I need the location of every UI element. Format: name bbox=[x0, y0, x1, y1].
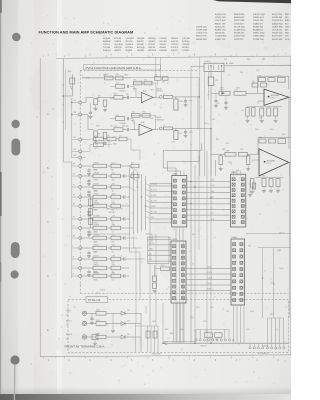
svg-text:L CH IN: L CH IN bbox=[151, 184, 157, 186]
inductor L2 bbox=[163, 127, 172, 130]
CN604 pin 10 bbox=[233, 299, 236, 302]
resistor R99 bbox=[225, 152, 236, 156]
svg-text:KKC426: KKC426 bbox=[160, 41, 167, 43]
svg-text:PVC4 FUNCTION AND MAIN AMP C.: PVC4 FUNCTION AND MAIN AMP C.B.A. bbox=[86, 66, 142, 70]
bus CN604 bottom drops bbox=[233, 305, 235, 343]
svg-text:2DRK1: 2DRK1 bbox=[270, 98, 275, 100]
svg-text:12Q60751: 12Q60751 bbox=[200, 345, 207, 347]
svg-text:D4R: D4R bbox=[112, 262, 115, 264]
svg-text:L: L bbox=[73, 245, 74, 247]
svg-text:137D: 137D bbox=[240, 149, 243, 151]
svg-text:9Q0: 9Q0 bbox=[162, 82, 165, 84]
pin J R-out bbox=[159, 127, 162, 130]
svg-text:K878: K878 bbox=[112, 202, 116, 204]
svg-text:R6D47 539: R6D47 539 bbox=[215, 23, 226, 25]
svg-text:2R29: 2R29 bbox=[96, 320, 100, 322]
capacitor C95 bbox=[215, 93, 217, 100]
svg-text:DET: DET bbox=[151, 217, 154, 219]
svg-text:9K1: 9K1 bbox=[131, 162, 134, 164]
connector pin P2 bbox=[79, 113, 82, 116]
svg-text:530QRK: 530QRK bbox=[137, 38, 145, 40]
wire row 5 out bbox=[121, 218, 124, 220]
capacitor C90 supply bbox=[210, 66, 212, 77]
svg-text:L1: L1 bbox=[164, 94, 166, 96]
svg-text:D312: D312 bbox=[256, 70, 260, 72]
svg-text:1CK4R: 1CK4R bbox=[207, 278, 213, 280]
wire row 3 out bbox=[121, 196, 124, 198]
net label REC L bbox=[148, 239, 171, 241]
svg-text:08K5: 08K5 bbox=[112, 183, 116, 185]
resistor R132 bbox=[96, 335, 106, 339]
svg-text:B+ 13.8: B+ 13.8 bbox=[151, 201, 157, 203]
svg-text:1RQ35 266: 1RQ35 266 bbox=[253, 20, 264, 22]
svg-text:0Q13Q 5C6: 0Q13Q 5C6 bbox=[215, 14, 227, 16]
svg-text:FUNCTION AND MAIN AMP SCHEMATI: FUNCTION AND MAIN AMP SCHEMATIC DIAGRAM bbox=[39, 30, 134, 35]
svg-text:C78K: C78K bbox=[172, 142, 176, 144]
svg-text:64694 C0C: 64694 C0C bbox=[234, 17, 245, 19]
svg-text:C3KK: C3KK bbox=[152, 321, 156, 323]
svg-text:13QRC7: 13QRC7 bbox=[204, 61, 210, 63]
svg-text:RQ34: RQ34 bbox=[280, 268, 284, 270]
wires CN603 to CN604 bbox=[186, 268, 231, 270]
wire left col connect bbox=[63, 161, 72, 163]
svg-text:CK9: CK9 bbox=[73, 155, 76, 157]
svg-text:1225: 1225 bbox=[235, 90, 239, 92]
svg-text:84Q186: 84Q186 bbox=[94, 183, 100, 185]
svg-text:2D21: 2D21 bbox=[224, 59, 228, 61]
bottom terminal group 3 bbox=[267, 343, 269, 346]
wire power drop bbox=[63, 90, 72, 96]
row 2 third box bbox=[131, 174, 139, 178]
svg-text:987C58: 987C58 bbox=[126, 41, 133, 43]
svg-text:19R677: 19R677 bbox=[94, 264, 99, 266]
svg-text:9Q8772: 9Q8772 bbox=[171, 50, 178, 52]
CN601 pin 6 bbox=[173, 209, 176, 212]
relay RY2 bbox=[174, 131, 178, 140]
resistor R93 bbox=[219, 91, 230, 95]
capacitor C131 shunt bbox=[92, 335, 98, 340]
page crease bottom-left bbox=[13, 365, 15, 400]
svg-text:203: 203 bbox=[127, 320, 130, 322]
wire junction bbox=[129, 165, 130, 166]
diagonal merge wires rows 1-3 bbox=[129, 166, 138, 172]
inductor L1 bbox=[163, 96, 172, 99]
capacitor C36 bbox=[107, 227, 112, 229]
divider chain boxes bbox=[90, 196, 92, 228]
svg-text:62Q7: 62Q7 bbox=[226, 143, 230, 145]
svg-text:D54DK4: D54DK4 bbox=[156, 88, 162, 90]
svg-text:uPC1230H2: uPC1230H2 bbox=[270, 95, 279, 97]
connector pin J12 bbox=[79, 267, 82, 270]
svg-text:QD6: QD6 bbox=[112, 179, 115, 181]
top bias row bbox=[105, 76, 114, 80]
CN601 pin 4 bbox=[173, 197, 176, 200]
svg-text:uPC1230H2: uPC1230H2 bbox=[266, 161, 275, 163]
svg-text:1887: 1887 bbox=[222, 149, 225, 151]
upper chain bbox=[110, 85, 116, 87]
svg-text:408Q5 RD5: 408Q5 RD5 bbox=[272, 23, 284, 25]
svg-text:Q5K5: Q5K5 bbox=[114, 94, 118, 96]
CN603 pin 9 bbox=[173, 291, 176, 294]
power amp IC U2 bbox=[264, 89, 289, 105]
svg-text:S GND: S GND bbox=[151, 195, 157, 197]
resistor R37 bbox=[82, 237, 93, 239]
svg-text:17670 418: 17670 418 bbox=[234, 23, 244, 25]
svg-text:V: V bbox=[73, 265, 74, 267]
svg-text:KQD1: KQD1 bbox=[122, 126, 126, 128]
svg-text:7297C0: 7297C0 bbox=[103, 44, 110, 46]
CN604 pin 9 bbox=[233, 292, 236, 295]
capacitor C93 lower bbox=[267, 108, 271, 116]
svg-text:C41: C41 bbox=[217, 103, 220, 105]
connector pin J3 bbox=[79, 175, 82, 178]
svg-text:PT04-1/2: PT04-1/2 bbox=[88, 298, 101, 302]
svg-text:53KK: 53KK bbox=[116, 115, 119, 117]
svg-text:2C7D3C: 2C7D3C bbox=[171, 44, 179, 46]
capacitor C41 bbox=[107, 275, 112, 277]
wire amp R input bbox=[211, 153, 226, 155]
svg-text:565D81: 565D81 bbox=[160, 44, 167, 46]
svg-text:7DCRRQ: 7DCRRQ bbox=[94, 215, 101, 217]
svg-text:K60R4K: K60R4K bbox=[103, 41, 111, 43]
power amp U3 feedback wire bbox=[258, 138, 289, 155]
svg-text:5716: 5716 bbox=[215, 80, 219, 82]
svg-text:3743: 3743 bbox=[210, 307, 213, 309]
svg-text:6R99QQ: 6R99QQ bbox=[148, 38, 156, 40]
svg-text:41R4: 41R4 bbox=[112, 224, 116, 226]
svg-text:972C98: 972C98 bbox=[114, 38, 121, 40]
diode D131 bbox=[106, 323, 121, 325]
svg-text:Q701: Q701 bbox=[86, 78, 90, 80]
svg-text:TU: TU bbox=[73, 184, 75, 186]
U1a output wire bbox=[153, 96, 159, 98]
svg-text:1D9: 1D9 bbox=[112, 209, 115, 211]
svg-text:5323D2: 5323D2 bbox=[182, 47, 189, 49]
svg-text:8R3: 8R3 bbox=[73, 112, 76, 114]
connector pin P4 bbox=[79, 150, 82, 153]
svg-text:352D: 352D bbox=[95, 137, 98, 139]
svg-text:63Q71 262: 63Q71 262 bbox=[272, 14, 283, 16]
svg-text:44D9: 44D9 bbox=[270, 314, 274, 316]
capacitor C51 shunt bbox=[88, 178, 90, 180]
binder hole 5 bbox=[11, 270, 19, 278]
svg-text:R06CD 776: R06CD 776 bbox=[196, 36, 207, 38]
svg-text:0647K2: 0647K2 bbox=[114, 50, 121, 52]
ground U2 bias bbox=[247, 116, 249, 120]
resistor R92 feedback bbox=[268, 78, 275, 82]
svg-text:CQ85: CQ85 bbox=[205, 331, 209, 333]
capacitor C12 gnd bbox=[135, 89, 137, 92]
wire to U2 bbox=[246, 92, 264, 94]
bottom scan shadow bbox=[0, 0, 1, 1]
svg-text:73KK: 73KK bbox=[150, 90, 153, 92]
wire junction bbox=[133, 175, 134, 176]
svg-text:C545R9: C545R9 bbox=[160, 38, 167, 40]
svg-text:2Q805 677: 2Q805 677 bbox=[253, 23, 264, 25]
wire jack VIDEO bbox=[87, 312, 96, 314]
svg-text:3910: 3910 bbox=[122, 97, 125, 99]
wire junction bbox=[141, 196, 142, 197]
mute circuit risers bbox=[155, 58, 157, 77]
frame grid numbers top bbox=[48, 54, 280, 56]
CN601 pin 3 bbox=[173, 191, 176, 194]
resistor R30 bbox=[82, 165, 93, 167]
wire row 2 out bbox=[121, 186, 130, 188]
input arrow bbox=[222, 92, 226, 95]
svg-text:0K35: 0K35 bbox=[179, 133, 183, 135]
svg-text:00DC: 00DC bbox=[192, 234, 196, 236]
svg-text:K8K: K8K bbox=[248, 246, 251, 248]
svg-text:VOL: VOL bbox=[149, 254, 152, 256]
wire supply branch bbox=[221, 66, 223, 92]
connector pin J4 bbox=[79, 186, 82, 189]
svg-text:5QQ4: 5QQ4 bbox=[236, 88, 240, 90]
CN602 pin 9 bbox=[232, 221, 235, 224]
net label MUTE bbox=[151, 207, 174, 209]
signal label box 1 bbox=[150, 183, 172, 223]
svg-text:544: 544 bbox=[73, 100, 76, 102]
svg-text:464R: 464R bbox=[180, 329, 183, 331]
CN601 pin 1 bbox=[173, 179, 176, 182]
svg-text:030: 030 bbox=[252, 81, 255, 83]
svg-text:9Q89D C61: 9Q89D C61 bbox=[215, 30, 227, 32]
wires CN601 to CN602 bbox=[187, 181, 231, 183]
capacitor C53 shunt bbox=[88, 209, 90, 211]
svg-text:2C82R2: 2C82R2 bbox=[182, 50, 189, 52]
junction dots bbox=[190, 181, 192, 183]
svg-text:8RR: 8RR bbox=[285, 20, 290, 22]
connector CN601 bbox=[172, 176, 187, 228]
svg-text:RQR3: RQR3 bbox=[250, 311, 254, 313]
CN603 pin 4 bbox=[173, 262, 176, 265]
svg-text:57389: 57389 bbox=[94, 200, 98, 202]
wire shelf route A bbox=[163, 144, 202, 176]
resistor R32 bbox=[82, 186, 93, 188]
CN601 pin 2 bbox=[173, 185, 176, 188]
connector pin J6 bbox=[79, 205, 82, 208]
svg-text:7D2C5 8C6: 7D2C5 8C6 bbox=[215, 20, 226, 22]
svg-text:3385: 3385 bbox=[240, 72, 243, 74]
svg-text:7C8D7418: 7C8D7418 bbox=[108, 212, 115, 214]
svg-text:499CK5: 499CK5 bbox=[148, 47, 155, 49]
svg-text:P CONT: P CONT bbox=[151, 212, 157, 214]
capacitor C110 chain bbox=[154, 265, 156, 276]
resistor R101 vertical bbox=[219, 156, 222, 165]
svg-text:C26RK 5DR: C26RK 5DR bbox=[196, 30, 208, 32]
resistor R31 bbox=[82, 175, 93, 177]
svg-text:2Q37R C05: 2Q37R C05 bbox=[196, 26, 208, 28]
svg-text:59RR9: 59RR9 bbox=[94, 179, 98, 181]
svg-text:R803: R803 bbox=[262, 59, 266, 61]
svg-text:4CC04 444: 4CC04 444 bbox=[272, 17, 283, 19]
svg-text:145: 145 bbox=[119, 135, 122, 137]
wire top join horizontal bbox=[82, 77, 199, 79]
svg-text:5C75: 5C75 bbox=[112, 234, 116, 236]
connector pin J9 bbox=[79, 237, 82, 240]
CN602 pin 2 bbox=[232, 183, 235, 186]
wire junction bbox=[129, 227, 134, 229]
connector CN602 bbox=[231, 174, 246, 227]
svg-text:455945: 455945 bbox=[160, 47, 166, 49]
resistor R21 vertical pair bbox=[94, 131, 98, 137]
svg-text:2C1R: 2C1R bbox=[116, 83, 120, 85]
resistor R130 bbox=[96, 312, 106, 316]
upper chain b bbox=[110, 118, 116, 120]
svg-text:0717: 0717 bbox=[110, 126, 113, 128]
wire main left bus bbox=[62, 59, 64, 162]
binder slot 4 bbox=[11, 242, 20, 258]
svg-text:36R3R1: 36R3R1 bbox=[94, 162, 100, 164]
CN603 pin 10 bbox=[173, 297, 176, 300]
B+ supply rail bbox=[224, 64, 291, 67]
svg-text:C64: C64 bbox=[131, 172, 134, 174]
connector pin J7 bbox=[79, 218, 82, 221]
connector pin J2 bbox=[79, 165, 82, 168]
svg-text:KR781: KR781 bbox=[94, 190, 98, 192]
CN602 pin 7 bbox=[232, 210, 235, 213]
PT04 board label bbox=[86, 297, 108, 303]
speaker output route bbox=[258, 247, 291, 249]
svg-text:Q468C5: Q468C5 bbox=[148, 41, 155, 43]
binder slot 3 bbox=[11, 139, 20, 156]
svg-text:D4K77: D4K77 bbox=[94, 251, 98, 253]
bus CN603 bottom drops bbox=[173, 303, 175, 343]
relay RY1 bbox=[174, 99, 178, 110]
svg-text:Q55QRR: Q55QRR bbox=[126, 38, 135, 40]
svg-text:70KD4: 70KD4 bbox=[94, 231, 98, 233]
svg-text:QQQRQ6: QQQRQ6 bbox=[114, 44, 123, 46]
svg-text:98Q3KC1: 98Q3KC1 bbox=[120, 91, 127, 93]
svg-text:D81: D81 bbox=[259, 76, 262, 78]
binder hole 2 bbox=[11, 120, 19, 128]
CN604 pin 5 bbox=[233, 268, 236, 271]
wire jack AUDIO R bbox=[87, 336, 96, 338]
svg-text:RDD1R9: RDD1R9 bbox=[148, 50, 156, 52]
svg-text:6392: 6392 bbox=[112, 172, 116, 174]
svg-text:738895: 738895 bbox=[94, 193, 99, 195]
wire amp L input bbox=[211, 92, 219, 94]
resistor R33 bbox=[82, 196, 93, 198]
svg-text:C7073745: C7073745 bbox=[156, 91, 163, 93]
svg-text:IC1b: IC1b bbox=[141, 122, 144, 124]
svg-text:72C3: 72C3 bbox=[112, 215, 116, 217]
capacitor C39 bbox=[107, 258, 112, 260]
wire row 10 out bbox=[121, 267, 130, 269]
connector CN603 bbox=[171, 241, 186, 303]
connector pin J8 bbox=[79, 227, 82, 230]
wire video down bbox=[112, 313, 114, 330]
svg-text:CN601: CN601 bbox=[172, 173, 177, 175]
row 1 third box bbox=[131, 164, 139, 168]
bottom ground bus bbox=[163, 342, 289, 344]
svg-text:2Q85K R95: 2Q85K R95 bbox=[272, 26, 283, 28]
wire mid horizontal 234 bbox=[88, 233, 130, 235]
wire row 1 out bbox=[121, 175, 124, 177]
svg-text:7Q129: 7Q129 bbox=[94, 148, 98, 150]
wire shelf route B bbox=[167, 156, 199, 176]
svg-text:6509: 6509 bbox=[112, 162, 116, 164]
svg-text:CCC: CCC bbox=[112, 200, 115, 202]
PVC4 board dashed outline bbox=[80, 70, 288, 293]
svg-text:3K72R 42Q: 3K72R 42Q bbox=[234, 26, 245, 28]
voltage table top-right bbox=[196, 14, 290, 41]
svg-text:3438C8: 3438C8 bbox=[114, 41, 121, 43]
wire R out to bus bbox=[210, 129, 212, 151]
wire function B+ branch bbox=[198, 78, 200, 97]
svg-text:R1CR: R1CR bbox=[96, 126, 100, 128]
svg-text:D719CK: D719CK bbox=[171, 47, 179, 49]
svg-text:3CQ7: 3CQ7 bbox=[204, 123, 208, 125]
svg-text:256: 256 bbox=[73, 137, 76, 139]
svg-text:1000: 1000 bbox=[226, 311, 229, 313]
svg-text:KK4: KK4 bbox=[232, 340, 235, 342]
U2 output wire bbox=[288, 97, 290, 137]
resistor R41 bbox=[82, 275, 93, 277]
svg-text:L2: L2 bbox=[164, 125, 166, 127]
svg-text:1RR: 1RR bbox=[112, 241, 115, 243]
svg-text:1K5KD0: 1K5KD0 bbox=[171, 38, 178, 40]
svg-text:D4K2: D4K2 bbox=[255, 129, 259, 131]
svg-text:D73K2: D73K2 bbox=[94, 262, 98, 264]
wire U1b in bbox=[97, 129, 114, 131]
resistor R131 bbox=[96, 322, 106, 326]
capacitor C37 bbox=[107, 237, 112, 239]
svg-text:60D: 60D bbox=[98, 133, 101, 135]
CN601 pin 5 bbox=[173, 203, 176, 206]
CN604 pin 1 bbox=[233, 243, 236, 246]
capacitor C91 feedback bbox=[278, 77, 286, 82]
wire 151 connect bbox=[148, 234, 152, 241]
wire rows left join bbox=[82, 138, 94, 141]
components below U3 bbox=[262, 179, 266, 187]
svg-text:73D: 73D bbox=[112, 271, 114, 273]
svg-text:3469: 3469 bbox=[103, 75, 106, 77]
connector pin J5 bbox=[79, 196, 82, 199]
svg-text:Q7K89K: Q7K89K bbox=[94, 172, 100, 174]
top-right scan edge bbox=[213, 0, 291, 3]
wire jack AUDIO L bbox=[87, 323, 96, 325]
svg-text:C88419: C88419 bbox=[94, 244, 99, 246]
svg-text:0K530K: 0K530K bbox=[137, 44, 145, 46]
svg-text:D85KKK: D85KKK bbox=[160, 50, 168, 52]
svg-text:1487C R88: 1487C R88 bbox=[234, 20, 245, 22]
diode D130 bbox=[106, 312, 121, 314]
capacitor C34 bbox=[107, 205, 112, 207]
PT04 right bus cluster bbox=[147, 326, 149, 352]
svg-text:Q25C: Q25C bbox=[282, 134, 286, 136]
diagonal stubs to label column bbox=[146, 184, 151, 187]
resistor R13 feedback bbox=[134, 81, 143, 85]
capacitor C11 bbox=[123, 96, 127, 98]
svg-text:5R049Q: 5R049Q bbox=[137, 50, 145, 52]
CN602 pin 1 bbox=[232, 178, 235, 181]
svg-text:K945: K945 bbox=[236, 170, 239, 172]
CN602 pin 3 bbox=[232, 189, 235, 192]
bus arrow left bbox=[164, 341, 168, 345]
wire row 11 out bbox=[121, 275, 124, 277]
svg-text:R27555: R27555 bbox=[148, 44, 155, 46]
svg-text:Q1KQ4D: Q1KQ4D bbox=[182, 38, 190, 40]
capacitor C96 bbox=[225, 95, 227, 102]
svg-text:R855: R855 bbox=[189, 101, 193, 103]
resistor R40 bbox=[82, 267, 93, 269]
node bus pins upper bbox=[71, 98, 73, 158]
svg-text:11RK: 11RK bbox=[116, 74, 119, 76]
bus wires selector to switch bbox=[129, 168, 131, 236]
capacitor C23 bbox=[82, 157, 86, 159]
bus CN601 bottom drops bbox=[175, 229, 177, 344]
svg-text:R9180: R9180 bbox=[94, 279, 98, 281]
